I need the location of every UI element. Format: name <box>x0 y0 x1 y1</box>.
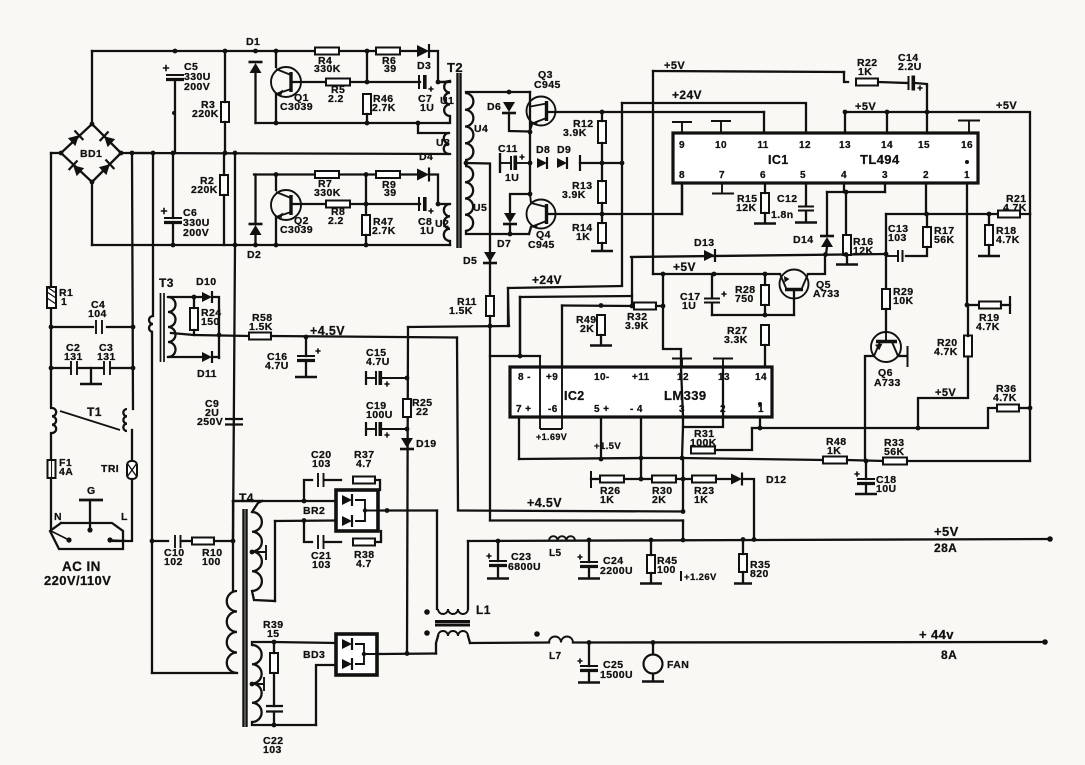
ground G bar <box>79 499 103 502</box>
wire R39 bottom lead <box>273 673 275 706</box>
wire B left drop <box>519 297 521 356</box>
wire C16 bottom <box>305 361 307 376</box>
label F1 value <box>59 466 73 478</box>
svg-text:A733: A733 <box>874 377 901 389</box>
wire +5V output rail <box>468 539 1050 541</box>
wire R17 to C13 <box>906 247 927 256</box>
label R46 value <box>372 102 396 114</box>
resistor R11 <box>486 296 494 316</box>
wire Q4 base <box>548 213 682 215</box>
wire lower sec top hook <box>252 642 274 645</box>
wire pin2 stub <box>925 183 927 214</box>
IC2 pin13 bar <box>713 359 733 368</box>
wire C8 to U2 <box>438 203 450 205</box>
diode D8 <box>537 157 547 169</box>
label R7 value <box>314 187 341 199</box>
label C8 value <box>420 225 434 237</box>
svg-text:IC1: IC1 <box>768 153 789 167</box>
wire BD3 lower path <box>316 665 336 725</box>
label C24 <box>603 555 623 567</box>
junction C16 top <box>304 335 309 340</box>
resistor R48 <box>823 457 847 464</box>
transformer T3 secondary winding <box>168 297 176 357</box>
label R5 <box>331 84 345 96</box>
diode D3 <box>417 44 429 58</box>
label Q1 <box>294 92 309 104</box>
label R27 value <box>724 334 748 346</box>
inductor L7 <box>549 637 573 643</box>
label L5 <box>549 548 562 559</box>
inductor L1 bottom winding <box>438 631 468 636</box>
wire pin1 stub <box>966 183 968 305</box>
label +5V mid right <box>855 101 876 113</box>
label R10 <box>202 547 222 559</box>
wire y521 wire <box>490 519 683 521</box>
ground R35 <box>734 582 752 585</box>
wire R12 bottom <box>601 143 603 163</box>
junction R49 top <box>599 303 604 308</box>
wire R7R9 to base row <box>365 175 367 205</box>
label BD3 <box>303 649 325 661</box>
svg-text:12K: 12K <box>736 202 756 214</box>
label R9 <box>382 179 396 191</box>
wire C7 to U1 <box>438 81 450 83</box>
junction BD1 bottom vertex <box>90 180 95 185</box>
label U4 <box>474 123 488 135</box>
wire D4 to C8 right <box>429 175 438 205</box>
BR2 inner links <box>355 500 378 521</box>
label R22 <box>857 57 877 69</box>
junction R47 bottom rail <box>364 243 369 248</box>
wire y428 to R36 <box>918 408 997 428</box>
label R16 <box>853 236 873 248</box>
label C4 <box>91 299 105 311</box>
wire Q2 top row <box>254 173 315 175</box>
label Q2 type <box>280 224 313 236</box>
label R37 value <box>356 458 372 470</box>
svg-text:100: 100 <box>657 564 676 576</box>
junction R13 top <box>600 161 605 166</box>
svg-text:11: 11 <box>757 140 768 151</box>
resistor R27 <box>761 325 769 345</box>
wire BD3 upper input <box>274 642 336 643</box>
label R47 <box>373 216 393 228</box>
wire x520 drop <box>519 297 521 356</box>
label R19 <box>979 312 999 324</box>
resistor R18 <box>985 225 993 245</box>
wire R28 leads <box>764 274 766 285</box>
junction R19 left <box>965 303 970 308</box>
label G <box>87 485 96 497</box>
svg-text:1K: 1K <box>858 66 872 78</box>
label L <box>121 511 128 523</box>
wire Q5 collector <box>808 254 825 274</box>
resistor R36 <box>997 405 1019 412</box>
label R13 value <box>562 189 586 201</box>
capacitor C21 <box>318 535 324 549</box>
terminal bar Q6 <box>907 346 909 367</box>
resistor R15 <box>761 193 769 213</box>
svg-text:T1: T1 <box>87 405 102 419</box>
svg-text:220K: 220K <box>191 184 218 196</box>
resistor R10 <box>192 538 214 545</box>
label R30 <box>652 485 672 497</box>
wire x235 vertical <box>234 153 236 245</box>
label C19 value <box>366 409 393 421</box>
svg-text:+5V: +5V <box>673 260 696 274</box>
junction x304 upper <box>302 499 307 504</box>
IC1 pin 15 label <box>918 140 930 151</box>
svg-text:5: 5 <box>800 170 806 181</box>
label +1.69V <box>536 432 567 442</box>
wire R16 bottom <box>846 255 848 263</box>
wire C23 stem <box>497 541 499 561</box>
BD1 diode upper-right <box>100 132 116 148</box>
capacitor C5 <box>163 65 184 80</box>
svg-text:BD3: BD3 <box>303 649 325 661</box>
junction C7 right <box>436 80 441 85</box>
junction R24 top <box>192 295 197 300</box>
label R33 value <box>884 446 904 458</box>
wire R58 to 4.5V corner <box>271 336 457 338</box>
wire Q5 base <box>793 291 795 315</box>
svg-text:56K: 56K <box>934 234 954 246</box>
svg-text:7: 7 <box>719 170 725 181</box>
resistor R20 <box>964 336 972 357</box>
wire Q1 collector <box>275 51 277 67</box>
wire x490 drop <box>489 356 491 520</box>
wire C22 bottom row <box>274 724 316 726</box>
inductor L5 <box>549 536 575 540</box>
label R6 value <box>384 63 396 75</box>
transformer T2 core <box>458 73 461 248</box>
svg-text:3.9K: 3.9K <box>563 127 587 139</box>
label R20 <box>937 337 957 349</box>
svg-text:100: 100 <box>202 556 221 568</box>
wire D14 riser <box>826 192 828 235</box>
ground R49 <box>590 344 612 347</box>
label R23 value <box>694 494 708 506</box>
wire D3 to C7 right <box>429 51 438 82</box>
diode D5 <box>483 252 497 263</box>
svg-text:D12: D12 <box>766 474 786 486</box>
wire R47 bottom <box>365 235 367 245</box>
IC1 pin 6 bottom label <box>760 170 766 181</box>
wire C4 row <box>51 326 93 328</box>
svg-text:1K: 1K <box>827 445 841 457</box>
label R23 <box>694 485 714 497</box>
label D14 <box>793 234 813 246</box>
diode D14 <box>820 236 834 247</box>
resistor R30 <box>652 476 676 483</box>
label C25 value <box>600 669 633 681</box>
svg-text:+5V: +5V <box>664 60 685 72</box>
label TL494 <box>860 152 900 167</box>
junction Q1 collector top <box>274 49 279 54</box>
wire x683 to rail <box>682 521 684 541</box>
svg-text:TRI: TRI <box>101 463 119 475</box>
label C15 <box>366 347 386 359</box>
junction C5 mid <box>172 111 176 115</box>
svg-text:1U: 1U <box>682 300 696 312</box>
wire BR2 lower input <box>275 519 336 522</box>
label C2 value <box>64 351 83 363</box>
svg-text:D19: D19 <box>416 438 436 450</box>
label R25 value <box>416 406 428 418</box>
junction R36 right rail <box>1028 406 1033 411</box>
wire T3 left vertical upper <box>152 153 154 316</box>
junction R45 rail <box>649 538 654 543</box>
wire C10 to R10 <box>181 540 191 542</box>
wire D2 bottom lead <box>254 235 256 245</box>
junction C22 bottom <box>272 723 277 728</box>
capacitor C25 <box>577 658 598 670</box>
wire R16 riser <box>845 192 847 235</box>
junction pin15 5V <box>925 110 930 115</box>
label R8 <box>331 206 345 218</box>
junction R3 top <box>223 49 228 54</box>
wire R39 top lead <box>273 642 275 653</box>
resistor R16 <box>843 235 851 255</box>
svg-text:+5V: +5V <box>996 100 1017 112</box>
label C12 <box>777 193 797 205</box>
ground C23 <box>487 577 509 580</box>
diode D10 <box>202 291 212 303</box>
svg-text:T2: T2 <box>447 60 463 75</box>
diode D2 <box>249 224 263 235</box>
svg-text:+1.69V: +1.69V <box>536 432 567 442</box>
IC1 pin10 nc bar <box>711 121 731 133</box>
wire pin14 stub <box>886 112 888 133</box>
junction BD1 left vertex <box>59 151 64 156</box>
wire C12 bottom <box>805 211 807 221</box>
L1 phase dot top <box>424 609 430 615</box>
wire right rail down <box>1029 214 1031 461</box>
ground R14 <box>591 250 613 253</box>
wire R49 bottom <box>600 335 602 344</box>
wire C18 stem <box>865 461 867 479</box>
junction R18 top <box>987 212 992 217</box>
capacitor C19 <box>366 422 407 438</box>
wire base row R5 to C7 <box>351 81 420 83</box>
junction R7 R9 <box>364 172 369 177</box>
junction Q2 collector top <box>274 172 279 177</box>
transistor Q3 <box>527 97 556 126</box>
label D7 <box>497 238 511 250</box>
thermistor TR1 <box>127 461 137 479</box>
BD3 diode top <box>342 638 352 650</box>
wire Q3 base to pin11 <box>763 112 765 132</box>
wire left vertical from BD1 left to T1 <box>50 153 52 408</box>
label F1 <box>59 457 72 469</box>
label U5 <box>473 202 487 214</box>
svg-text:100K: 100K <box>690 437 717 449</box>
label U1 <box>440 95 454 107</box>
wire R21 row <box>886 213 1030 215</box>
IC1 pin9 nc bar <box>672 122 692 133</box>
transformer T4 core <box>244 509 247 727</box>
svg-text:LM339: LM339 <box>664 388 706 403</box>
IC2 top pin +9 label <box>546 372 558 383</box>
svg-text:- 4: - 4 <box>630 404 643 415</box>
junction D14 bottom <box>823 252 828 257</box>
svg-text:C3039: C3039 <box>280 224 313 236</box>
label TR1 <box>101 463 119 475</box>
wire R20 top <box>967 305 969 336</box>
inductor L1 top winding <box>438 609 468 614</box>
wire x275 riser <box>274 521 276 601</box>
junction x133 C3row <box>131 366 136 371</box>
wire C2-C3 mid <box>79 367 103 369</box>
bridge rectifier BR2 box <box>336 490 378 531</box>
wire R37 right bend <box>375 480 380 490</box>
wire +5V long vertical <box>652 71 654 274</box>
label N <box>54 511 62 523</box>
wire R24 bottom to tap <box>171 330 194 335</box>
svg-text:D8: D8 <box>536 144 550 156</box>
wire top rail R6-D3 <box>400 50 417 52</box>
label R26 value <box>600 494 614 506</box>
junction y459 x641 <box>639 456 644 461</box>
wire C25 stem <box>588 643 590 667</box>
label L7 <box>549 651 562 662</box>
wire R2 bottom lead <box>223 195 225 245</box>
transistor Q6 <box>871 332 901 362</box>
terminal +5V rail end <box>1047 536 1053 542</box>
label D13 <box>694 237 714 249</box>
svg-text:12K: 12K <box>853 245 873 257</box>
label T2 <box>447 60 463 75</box>
wire Q1 base row <box>291 81 326 83</box>
label C5 <box>184 61 198 73</box>
wire R45 bottom <box>650 573 652 582</box>
label C4 value <box>88 308 107 320</box>
junction R39 top <box>272 640 277 645</box>
IC1 pin 14 label <box>881 140 893 151</box>
wire +5V right rail <box>845 112 1030 214</box>
junction R28 bottom <box>763 313 768 318</box>
label R29 <box>893 286 913 298</box>
svg-text:330K: 330K <box>314 63 341 75</box>
wire pin12col through <box>681 367 683 417</box>
bridge rectifier BD3 box <box>336 634 377 675</box>
IC1 pin 10 label <box>715 140 727 151</box>
svg-text:330K: 330K <box>314 187 341 199</box>
svg-text:2.2U: 2.2U <box>898 61 922 73</box>
svg-text:D5: D5 <box>463 255 477 267</box>
svg-text:2.2: 2.2 <box>328 215 344 227</box>
wire Q2 top row c <box>400 173 417 175</box>
junction D6 top <box>507 90 512 95</box>
junction C17 top <box>712 272 717 277</box>
wire R17 leads <box>926 214 928 227</box>
L1 phase dot bottom <box>424 630 430 636</box>
wire R22 jog <box>844 72 848 82</box>
wire C10 R10 row <box>152 540 168 542</box>
IC1 pin16 nc bar <box>958 121 980 134</box>
wire T3 left vertical lower <box>151 332 153 673</box>
wire +5V mid rail <box>653 273 780 275</box>
wire BD1 bottom to bottom rail <box>91 182 93 245</box>
wire R35 top <box>742 540 744 555</box>
label IC2 <box>564 389 585 403</box>
wire C4 row right <box>107 326 133 328</box>
wire R19 right <box>1001 304 1010 306</box>
wire +24V A <box>508 286 622 288</box>
label BD1 <box>80 148 102 160</box>
wire Q2 top row b <box>340 173 376 175</box>
label C11 value <box>505 172 519 184</box>
svg-text:10U: 10U <box>876 483 896 495</box>
transistor Q4 <box>527 194 556 229</box>
svg-text:5 +: 5 + <box>594 404 609 415</box>
label R13 <box>572 180 592 192</box>
junction R13 bottom <box>600 212 605 217</box>
svg-text:FAN: FAN <box>667 659 689 671</box>
wire Q6 collector <box>898 355 907 357</box>
ground C24 <box>578 577 600 580</box>
wire C14 to riser <box>915 83 927 86</box>
label D12 <box>766 474 786 486</box>
wire R14 leads <box>601 214 603 223</box>
inductor L1 core <box>435 622 470 626</box>
diode D11 <box>202 351 212 363</box>
label +44V out <box>919 627 954 642</box>
BD3 diode bottom <box>342 658 352 670</box>
label R47 value <box>372 225 396 237</box>
capacitor C22 <box>266 706 283 712</box>
junction BD1 right <box>130 151 135 156</box>
svg-text:L7: L7 <box>549 651 562 662</box>
transformer T2 winding U1 <box>444 81 450 116</box>
capacitor C14 <box>909 76 923 91</box>
wire Q2 base row b <box>351 203 420 205</box>
L7 phase dot <box>534 631 540 637</box>
label R6 <box>382 55 396 67</box>
svg-text:4A: 4A <box>59 466 73 478</box>
junction R46 bottom <box>365 121 370 126</box>
label C14 <box>898 52 918 64</box>
label R26 <box>600 485 620 497</box>
label R28 value <box>735 293 754 305</box>
svg-text:-6: -6 <box>548 404 558 415</box>
svg-text:+24V: +24V <box>532 273 562 287</box>
label D9 <box>557 144 571 156</box>
wire pin8 feed <box>490 326 540 356</box>
junction C25 rail <box>587 640 592 645</box>
resistor R24 <box>190 308 198 330</box>
label R22 value <box>858 66 872 78</box>
wire R3 bottom lead <box>224 122 226 153</box>
wire T3 top tap <box>168 296 202 298</box>
wire C25 bottom <box>588 671 590 681</box>
label R15 value <box>736 202 756 214</box>
label R8 value <box>328 215 344 227</box>
IC1 pin7 nc bar <box>712 183 734 194</box>
resistor R28 <box>761 285 769 305</box>
junction D1 top <box>253 49 258 54</box>
label R49 <box>576 314 596 326</box>
svg-text:104: 104 <box>88 308 107 320</box>
wire x683 vertical <box>682 458 684 512</box>
wire Q3 emitter to C11 row <box>529 132 531 163</box>
label R15 <box>737 193 757 205</box>
capacitor C9 <box>225 419 243 425</box>
svg-text:+4.5V: +4.5V <box>527 496 562 510</box>
wire BD3 output <box>377 652 436 655</box>
wire y428 long <box>752 427 918 429</box>
IC1 pin 8 bottom label <box>679 170 685 181</box>
